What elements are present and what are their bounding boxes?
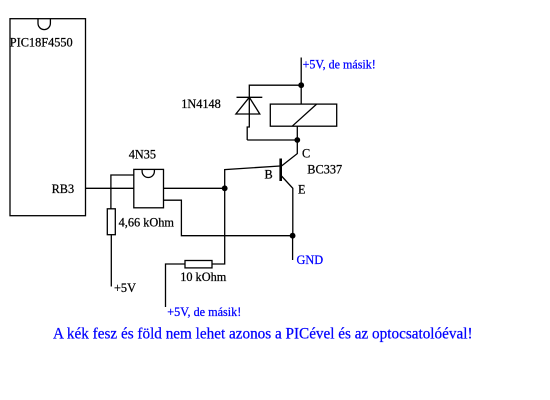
junction dot node C collector [294, 137, 300, 143]
wire opto pin1 to resistor R1 [111, 175, 134, 209]
svg-text:4N35: 4N35 [129, 148, 156, 162]
relay K1 body [270, 104, 336, 126]
wire node A down to resistor R2 [212, 188, 225, 264]
transistor Q1 base bar [279, 159, 282, 182]
relay K1 diagonal [292, 104, 316, 126]
svg-text:C: C [302, 147, 310, 161]
wire relay top to +5V node B [300, 58, 302, 105]
transistor Q1 emitter lead [282, 176, 293, 236]
wire RB3 to optocoupler [86, 187, 134, 189]
svg-text:4,66 kOhm: 4,66 kOhm [119, 216, 175, 230]
transistor Q1 collector lead [282, 140, 298, 166]
IC U1 pin-1 notch [38, 19, 50, 30]
resistor R2 10 kOhm body [185, 261, 212, 268]
wire opto pin5 to node A [164, 187, 225, 189]
svg-text:+5V, de másik!: +5V, de másik! [303, 58, 376, 72]
svg-text:E: E [298, 183, 306, 197]
wire R1 to +5V [110, 235, 112, 287]
IC U1 PIC18F4550 body [10, 19, 86, 216]
optocoupler U2 notch [142, 170, 154, 178]
junction dot emitter/GND node [290, 233, 296, 239]
svg-text:GND: GND [297, 253, 324, 267]
svg-text:RB3: RB3 [52, 182, 75, 196]
svg-text:10 kOhm: 10 kOhm [180, 270, 227, 284]
wire R2 to blue +5V [166, 264, 186, 307]
junction dot node A [222, 185, 228, 191]
wire diode to node C [247, 139, 297, 141]
wire opto pin4 to emitter node [164, 200, 293, 236]
wire relay bottom to node C [296, 126, 298, 140]
svg-text:B: B [265, 168, 273, 182]
resistor R1 4,66 kOhm body [107, 209, 115, 235]
svg-text:PIC18F4550: PIC18F4550 [10, 36, 73, 50]
svg-text:+5V: +5V [114, 281, 136, 295]
wire emitter node to GND [292, 236, 294, 260]
svg-text:A kék fesz és föld nem lehet a: A kék fesz és föld nem lehet azonos a PI… [53, 325, 473, 342]
diode D1 triangle [236, 97, 260, 114]
wire node B to diode D1 [247, 85, 301, 140]
svg-text:+5V, de másik!: +5V, de másik! [167, 305, 241, 319]
junction dot node B +5V [298, 82, 304, 88]
svg-text:1N4148: 1N4148 [181, 97, 221, 111]
optocoupler U2 4N35 body [134, 169, 164, 207]
svg-text:BC337: BC337 [307, 163, 342, 177]
wire node A to transistor base [225, 166, 280, 188]
diode D1 cathode bar [237, 96, 263, 98]
